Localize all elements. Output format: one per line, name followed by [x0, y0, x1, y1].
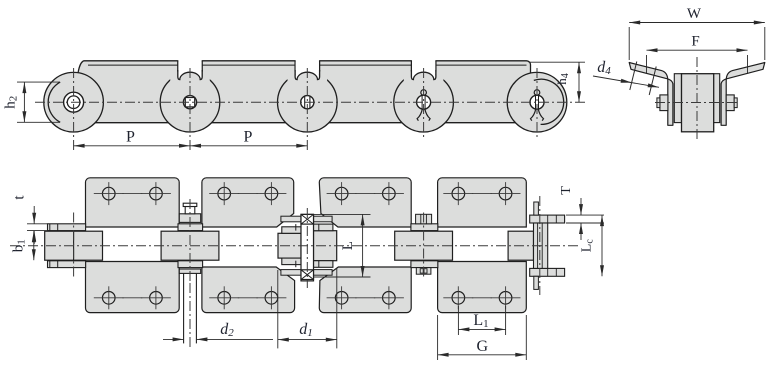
dimension h4 line with arrows	[578, 62, 580, 102]
plan view horizontal centerline	[10, 245, 580, 247]
dimension L1 line with arrows	[458, 328, 505, 330]
dimension h2 extension lines	[17, 81, 60, 83]
cross-section: right pin end	[726, 95, 734, 111]
plan view vertical centerline pin 3	[306, 208, 308, 288]
pin 3 bottom wide bar	[281, 270, 332, 276]
pin 1 bottom tab bar	[48, 261, 86, 268]
cross-section: left inner link plate	[674, 74, 681, 123]
pin 1 seam line	[73, 231, 75, 260]
pin 3 bush edges	[295, 224, 297, 231]
pin 3 end (circle with vertical flats)	[301, 96, 314, 109]
pin 4 top tab bar	[411, 224, 438, 231]
pin 3 cotter section top (crossed box)	[301, 214, 314, 224]
holes in top plate 1	[102, 187, 115, 200]
svg-text:F: F	[691, 34, 699, 50]
bush cap in notch at pin 4	[404, 72, 412, 81]
dimension G extension lines	[437, 315, 439, 360]
bottom attachment plate 4	[438, 262, 527, 313]
vertical centerline pin 3 (side view)	[306, 68, 308, 153]
plan view roller at pin 4	[395, 231, 453, 260]
pin 3 cotter section bottom (crossed box)	[301, 270, 314, 280]
dimension L1 extension lines	[457, 306, 459, 335]
cross-section: left bent attachment plate (wing + vertical leg)	[629, 63, 673, 126]
roller at pin 5 (side view)	[507, 72, 567, 132]
plan view roller at pin 1	[45, 231, 103, 260]
pin 3 sectioned: pin shaft	[301, 214, 314, 281]
chain side-view link plate band	[70, 61, 545, 123]
dimension t extension lines	[27, 223, 48, 225]
dimension F extension lines	[646, 55, 648, 74]
pin 2 extended pin (long, measured d2)	[183, 273, 185, 343]
left link end cap arc	[48, 82, 60, 122]
top attachment plate 2 (chamfered near sectioned pin)	[202, 178, 294, 227]
holes in bottom plate 4	[452, 292, 465, 305]
dimension T extension lines	[566, 214, 604, 216]
svg-text:W: W	[687, 6, 702, 22]
holes in top plate 2	[218, 187, 231, 200]
plan view vertical centerline pin 5	[539, 196, 541, 295]
dimension L line with arrows	[362, 214, 364, 277]
pin 5 top stub	[534, 202, 539, 215]
svg-text:b1: b1	[11, 239, 28, 252]
pin 3 top wide bar	[281, 216, 332, 222]
cross-section: right inner link plate	[713, 74, 720, 123]
roller at pin 2 (side view)	[160, 72, 220, 132]
bottom attachment plate 1	[86, 262, 180, 313]
pin 4 end with cotter pin	[417, 95, 431, 109]
cross-section: horizontal centerline	[655, 102, 739, 104]
holes in top plate 3	[335, 187, 348, 200]
pin 4 cotter detail below	[416, 268, 431, 275]
cross-section: vertical centerline	[696, 57, 698, 141]
roller at pin 3 (side view)	[278, 72, 338, 132]
dimension d1 extension lines	[277, 270, 279, 348]
pin 3 sectioned: left roller half	[278, 233, 301, 258]
roller at pin 1 (side view)	[44, 72, 104, 132]
dimension Lc line with arrows	[601, 215, 603, 276]
vertical centerline pin 4 (side view)	[423, 68, 425, 140]
svg-text:P: P	[244, 129, 253, 146]
holes in bottom plate 2	[218, 292, 231, 305]
dimension F line	[647, 49, 748, 51]
svg-text:G: G	[477, 338, 489, 355]
svg-text:h4: h4	[554, 73, 571, 85]
dimension h4 extension line	[529, 61, 586, 63]
pin 3 sectioned: right roller half	[314, 231, 337, 261]
pin 2 end (circle with square flats)	[183, 96, 196, 109]
d4 dimension line with arrows	[593, 76, 659, 87]
plan view roller at pin 2	[161, 231, 219, 260]
dimension W line	[629, 22, 765, 24]
dimension W extension lines	[628, 27, 630, 60]
holes in top plate 4	[452, 187, 465, 200]
dimension G line with arrows	[438, 354, 527, 356]
pin 5 bottom stub	[534, 276, 539, 289]
dimension d1 line with arrows	[278, 339, 337, 341]
bottom attachment plate 3 (chamfered near sectioned pin)	[319, 267, 411, 313]
pin 2 upper washer	[179, 214, 200, 223]
right link end cap arc	[534, 79, 564, 124]
top attachment plate 3 (chamfered near sectioned pin)	[319, 178, 411, 227]
svg-text:L: L	[340, 241, 356, 250]
dimension b1 line with arrows	[33, 231, 35, 260]
dimension t arrows	[33, 206, 35, 224]
dimension P line	[74, 145, 308, 147]
pin 2 upper stub	[185, 207, 195, 214]
svg-text:Lc: Lc	[580, 239, 596, 253]
pin 5 end: top bar (attachment cross-section)	[530, 215, 565, 223]
dimension h2 line with arrows	[23, 82, 25, 122]
horizontal centerline of chain (side view)	[35, 101, 585, 103]
plan view roller at pin 5 (partial)	[508, 231, 533, 260]
holes in bottom plate 3	[335, 292, 348, 305]
top attachment plate 4	[438, 178, 527, 227]
pin 1 end (riveted pin head, two circles)	[64, 92, 84, 112]
svg-text:T: T	[559, 186, 574, 195]
dimension d2 arrows (outside)	[163, 338, 184, 340]
plan view vertical centerline pin 4	[423, 213, 425, 280]
plan view vertical centerline pin 1	[73, 213, 75, 280]
svg-text:P: P	[126, 129, 135, 146]
cross-section: right bent attachment plate	[721, 63, 765, 126]
pin 4 bottom tab bar	[411, 261, 438, 268]
cross-section: left pin end	[660, 95, 668, 111]
pin 1 top tab bar	[48, 224, 86, 231]
vertical centerline pin 5 (side view)	[536, 68, 538, 140]
dimension L extension lines	[314, 213, 371, 215]
svg-text:L1: L1	[473, 312, 488, 330]
svg-text:d1: d1	[299, 321, 313, 339]
holes in bottom plate 1	[102, 292, 115, 305]
cross-section: roller	[682, 74, 714, 132]
svg-text:d4: d4	[597, 59, 611, 77]
bush cap in notch at pin 3	[288, 72, 296, 81]
svg-text:d2: d2	[220, 321, 234, 339]
vertical centerline pin 1 (side view)	[73, 68, 75, 153]
pin 2 bottom tab bar	[178, 261, 203, 268]
pin 2 lower washer	[179, 269, 200, 273]
pin 3 sectioned: bush flanges	[314, 224, 333, 231]
inner plate top edge lines	[88, 64, 178, 66]
bush cap in notch at pin 2	[170, 72, 178, 81]
d4 hole edge tick marks on wing	[630, 62, 637, 91]
vertical centerline pin 2 (side view)	[189, 68, 191, 153]
top attachment plate 1	[86, 178, 180, 227]
plan view vertical centerline pin 2	[189, 199, 191, 283]
dimension T arrows	[580, 198, 582, 215]
pin 2 top tab bar	[178, 224, 203, 231]
pin 5 end: vertical bent leg	[534, 223, 548, 268]
pin 5 end with cotter pin	[530, 95, 544, 109]
bottom attachment plate 2 (chamfered near sectioned pin)	[202, 267, 295, 313]
pin 4 cotter detail above	[416, 214, 432, 224]
roller at pin 4 (side view)	[394, 72, 454, 132]
svg-text:h2: h2	[3, 96, 20, 109]
svg-text:t: t	[12, 195, 28, 200]
pin 5 end: bottom bar	[530, 268, 565, 276]
